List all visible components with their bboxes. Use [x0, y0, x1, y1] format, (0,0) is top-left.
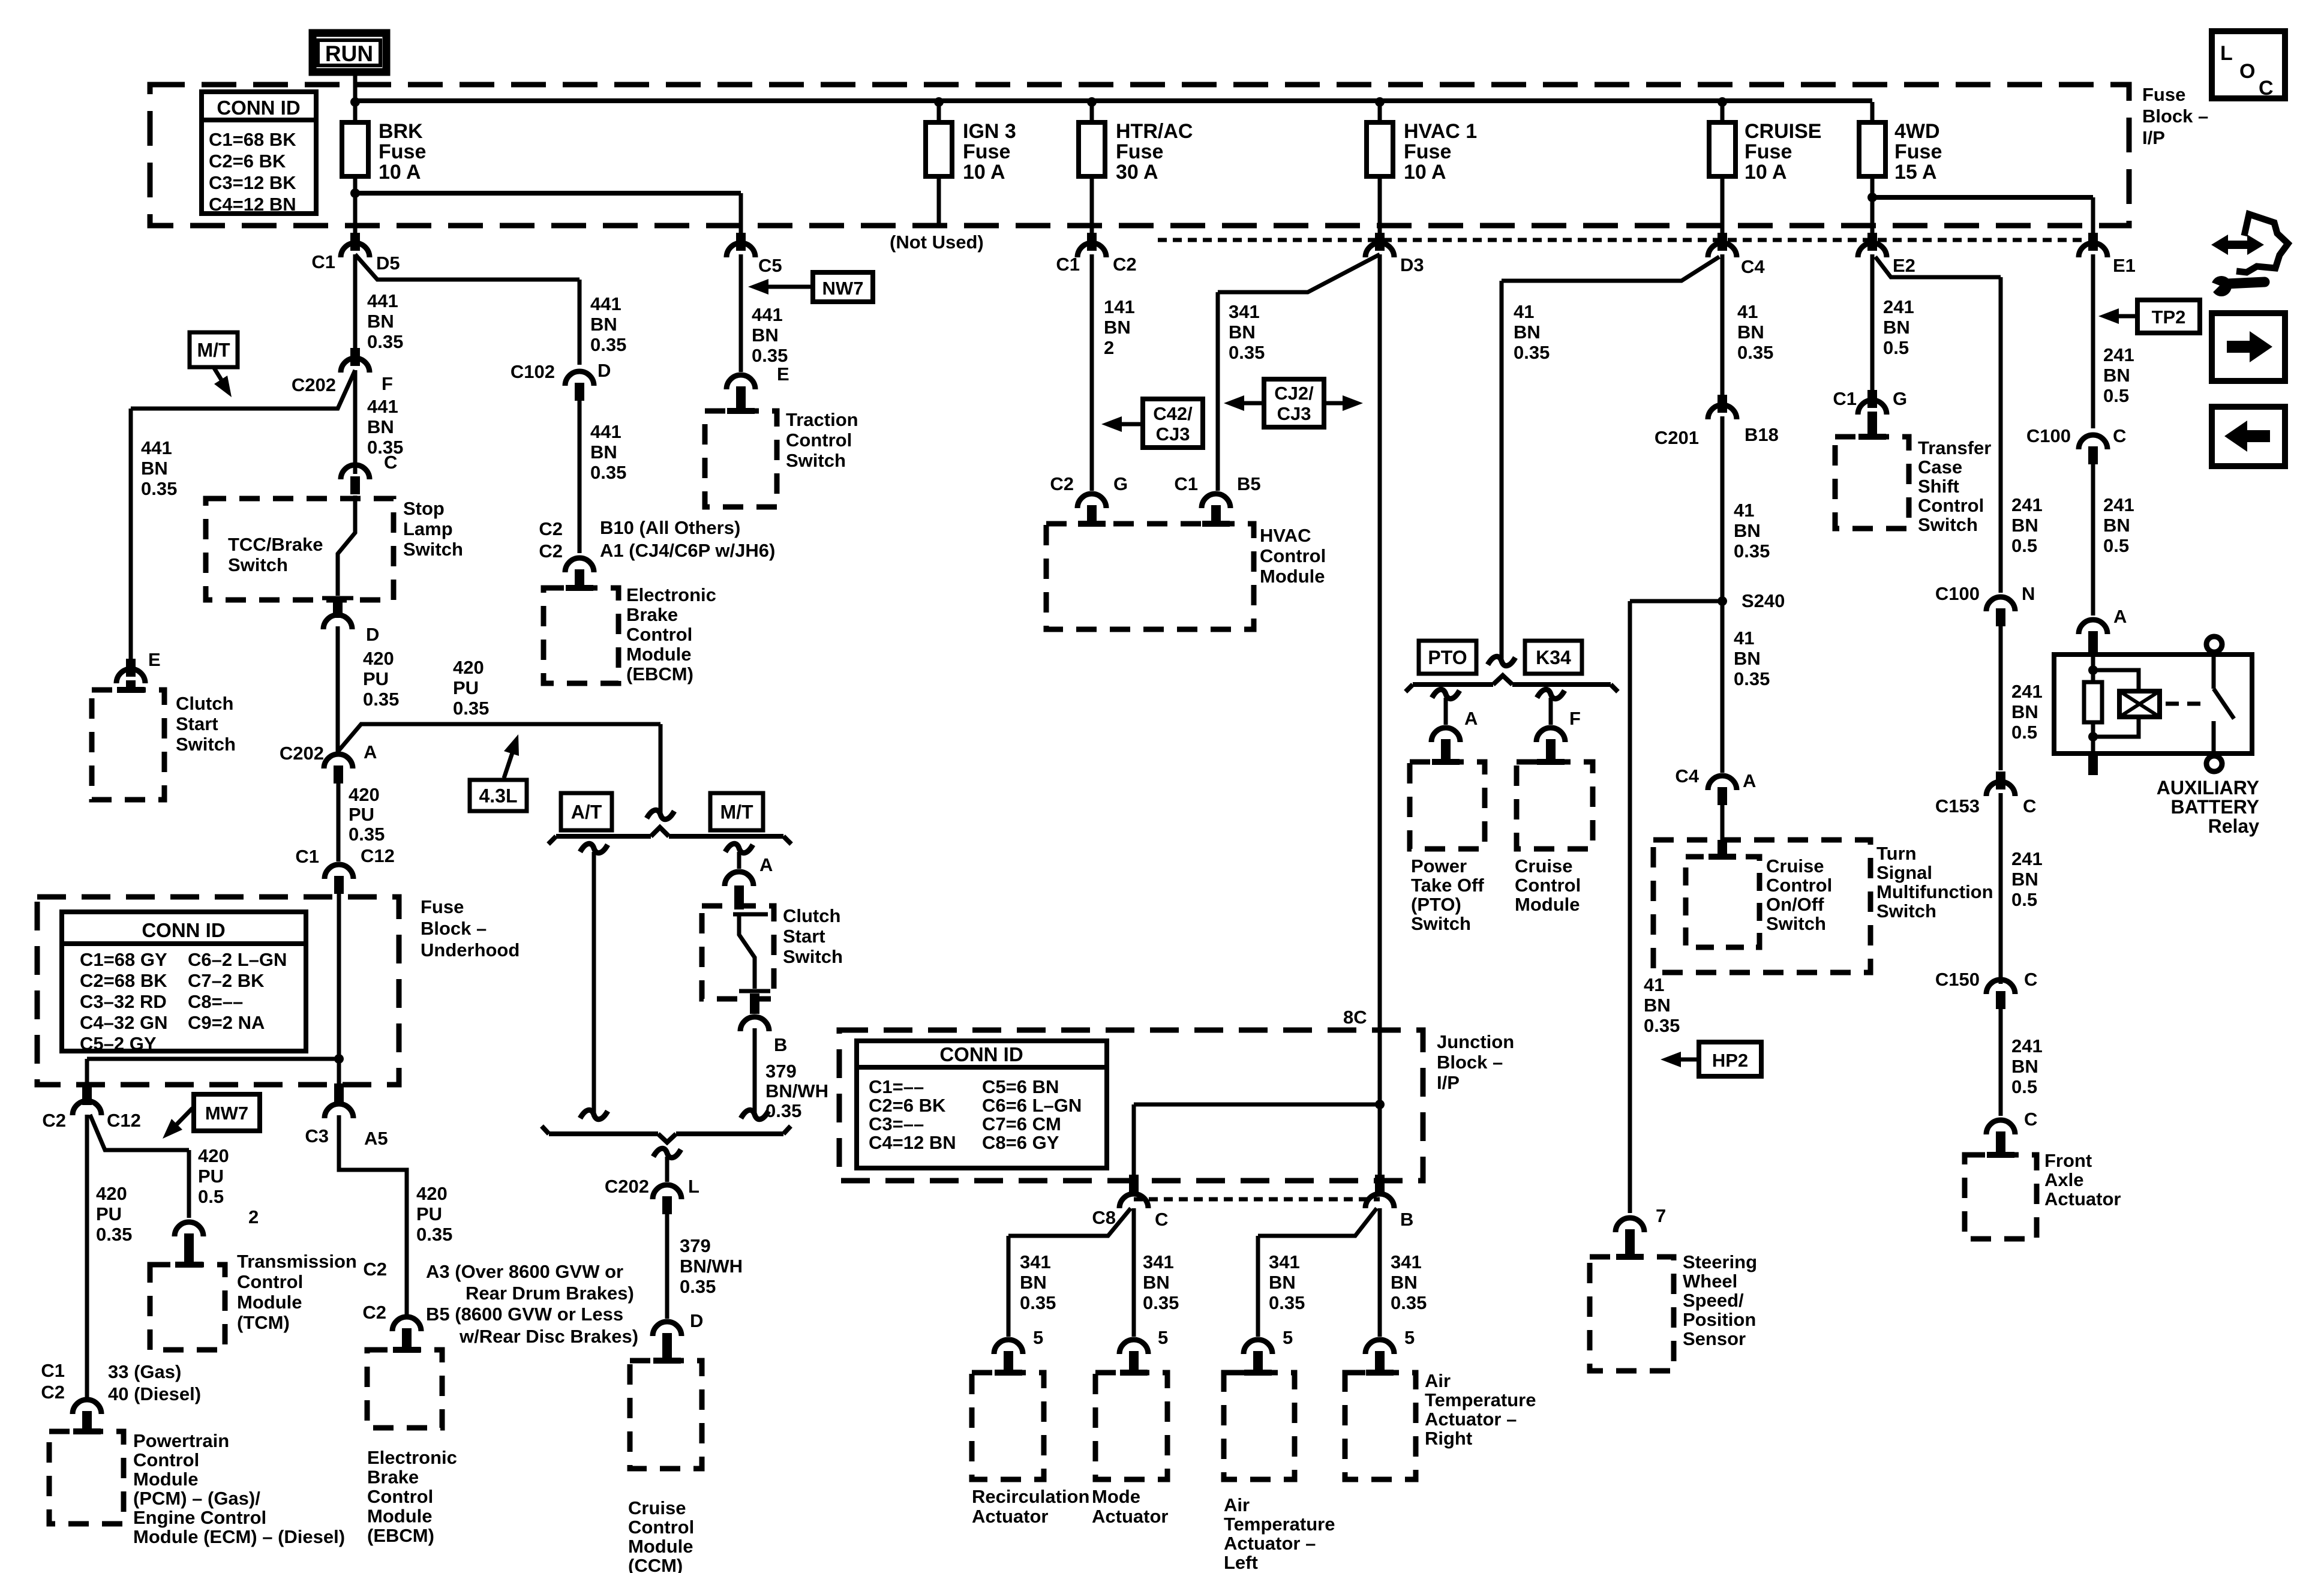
svg-text:441: 441	[590, 421, 621, 442]
traction control switch dashed box	[705, 411, 777, 507]
svg-text:Control: Control	[1766, 875, 1832, 896]
svg-text:D: D	[690, 1310, 703, 1331]
svg-text:Actuator –: Actuator –	[1425, 1409, 1517, 1430]
M/T option box	[710, 793, 763, 830]
CONN ID table (underhood)	[62, 912, 306, 1051]
svg-text:C5: C5	[758, 255, 782, 276]
svg-text:C2: C2	[362, 1302, 386, 1323]
svg-text:BN: BN	[1143, 1272, 1170, 1293]
svg-text:C3–32 RD: C3–32 RD	[80, 991, 167, 1012]
junction dot in underhood fuse block	[334, 1054, 344, 1064]
svg-text:0.35: 0.35	[1644, 1015, 1680, 1036]
svg-text:On/Off: On/Off	[1766, 894, 1824, 915]
junction dot HVAC1 tap	[1375, 97, 1385, 107]
svg-text:C153: C153	[1935, 795, 1980, 816]
wire C153 to C150	[1999, 793, 2003, 984]
svg-text:Front: Front	[2044, 1150, 2092, 1171]
svg-text:BRK: BRK	[379, 120, 423, 143]
wire D5 branch to C102	[355, 254, 580, 280]
svg-text:Control: Control	[237, 1271, 303, 1292]
svg-text:BN: BN	[752, 325, 779, 346]
svg-text:0.35: 0.35	[1269, 1292, 1305, 1313]
svg-text:Switch: Switch	[786, 450, 846, 471]
wire 41 BN branch to PTO/K34	[1502, 257, 1719, 281]
svg-text:Cruise: Cruise	[628, 1497, 686, 1518]
svg-text:TP2: TP2	[2152, 307, 2186, 328]
wire through CRUISE fuse	[1721, 102, 1725, 235]
svg-text:Mode: Mode	[1092, 1486, 1140, 1507]
option brace (top)	[556, 834, 651, 839]
svg-text:341: 341	[1391, 1251, 1422, 1272]
svg-text:L: L	[688, 1176, 699, 1197]
svg-text:M/T: M/T	[197, 340, 230, 361]
svg-text:C1: C1	[1833, 388, 1857, 409]
svg-text:C2: C2	[1050, 473, 1074, 494]
svg-text:BN: BN	[2011, 701, 2038, 722]
wire C3/A5 out of underhood fuse block	[337, 1059, 341, 1085]
svg-text:Wheel: Wheel	[1683, 1271, 1737, 1292]
svg-text:Switch: Switch	[783, 946, 843, 967]
svg-text:C: C	[2024, 969, 2037, 990]
junction dot HTR/AC tap	[1087, 97, 1097, 107]
clutch start switch (lower) dashed box	[702, 906, 774, 999]
svg-text:41: 41	[1734, 628, 1754, 649]
svg-text:241: 241	[2011, 494, 2043, 515]
svg-text:Recirculation: Recirculation	[972, 1486, 1089, 1507]
svg-text:241: 241	[2011, 848, 2043, 869]
svg-text:0.5: 0.5	[2011, 1076, 2037, 1097]
svg-text:0.5: 0.5	[1883, 337, 1909, 358]
svg-text:C3=12 BK: C3=12 BK	[209, 172, 296, 193]
wire L from brace	[653, 1148, 681, 1157]
svg-text:441: 441	[590, 293, 621, 314]
svg-text:D3: D3	[1400, 254, 1424, 275]
svg-text:RUN: RUN	[325, 41, 373, 66]
svg-text:Module: Module	[237, 1292, 302, 1313]
svg-text:E: E	[148, 649, 161, 670]
svg-text:0.5: 0.5	[198, 1186, 224, 1207]
junction dot below BRK fuse	[350, 188, 360, 198]
svg-text:w/Rear Disc Brakes): w/Rear Disc Brakes)	[459, 1326, 638, 1347]
svg-text:CJ3: CJ3	[1156, 424, 1190, 445]
connector C5 (traction branch)	[726, 243, 755, 257]
svg-text:A5: A5	[364, 1128, 388, 1149]
wire B down	[753, 1028, 757, 1113]
svg-text:Block –: Block –	[1437, 1052, 1503, 1073]
relay switch	[2212, 655, 2216, 689]
svg-text:41: 41	[1737, 301, 1758, 322]
svg-text:Switch: Switch	[403, 539, 463, 560]
connector C1/D5	[341, 243, 370, 257]
relay coil feed stub	[2088, 631, 2098, 656]
svg-text:0.35: 0.35	[363, 689, 399, 710]
svg-text:0.35: 0.35	[453, 698, 489, 719]
wire through 4WD fuse	[1870, 102, 1875, 235]
svg-text:Control: Control	[1515, 875, 1581, 896]
svg-text:40 (Diesel): 40 (Diesel)	[108, 1383, 201, 1404]
svg-text:C: C	[1155, 1209, 1168, 1230]
HVAC control module dashed box	[1046, 524, 1254, 629]
svg-text:A: A	[1743, 770, 1756, 791]
svg-text:BN: BN	[1514, 322, 1541, 343]
wire B18 to cruise on/off switch	[1721, 416, 1725, 773]
svg-text:A: A	[2113, 606, 2127, 627]
svg-text:PU: PU	[416, 1203, 442, 1224]
svg-text:10 A: 10 A	[1404, 161, 1446, 184]
svg-text:BN: BN	[1734, 648, 1761, 669]
svg-text:CJ2/: CJ2/	[1274, 383, 1314, 404]
svg-text:0.35: 0.35	[1737, 342, 1773, 363]
svg-text:BN: BN	[1737, 322, 1764, 343]
svg-text:Fuse: Fuse	[421, 896, 464, 917]
fuse IGN3 10A	[926, 122, 952, 176]
svg-text:Control: Control	[628, 1517, 694, 1538]
svg-text:Start: Start	[783, 926, 825, 947]
svg-text:Clutch: Clutch	[783, 905, 840, 926]
wire D to C202/A	[336, 626, 340, 752]
mode actuator dashed box	[1095, 1373, 1167, 1479]
I/P harness dotted line	[1158, 238, 2082, 242]
svg-text:BN: BN	[1644, 995, 1671, 1016]
svg-text:241: 241	[2103, 344, 2134, 365]
svg-text:S240: S240	[1742, 590, 1785, 611]
svg-text:Fuse: Fuse	[379, 140, 426, 163]
svg-text:Brake: Brake	[626, 604, 678, 625]
svg-text:C4: C4	[1741, 256, 1765, 277]
svg-text:PU: PU	[363, 668, 389, 689]
svg-text:0.35: 0.35	[590, 334, 626, 355]
connector D3 (HVAC1 fuse)	[1365, 243, 1394, 257]
stop lamp switch dashed box	[206, 499, 394, 600]
wire C5 to traction control switch	[739, 254, 743, 372]
CONN ID table (fuse block I/P)	[202, 92, 316, 214]
svg-text:Steering: Steering	[1683, 1251, 1757, 1272]
svg-text:Turn: Turn	[1876, 843, 1917, 864]
svg-text:0.35: 0.35	[349, 824, 385, 845]
svg-text:C6–2 L–GN: C6–2 L–GN	[188, 949, 287, 970]
svg-text:C1=68 GY: C1=68 GY	[80, 949, 167, 970]
svg-text:BN: BN	[141, 458, 168, 479]
svg-text:B5: B5	[1237, 473, 1261, 494]
air temperature actuator left dashed box	[1224, 1373, 1295, 1479]
svg-text:41: 41	[1514, 301, 1534, 322]
svg-text:CONN ID: CONN ID	[142, 919, 225, 941]
svg-text:C6=6 L–GN: C6=6 L–GN	[982, 1095, 1082, 1116]
svg-text:HP2: HP2	[1712, 1050, 1748, 1071]
svg-text:A: A	[759, 854, 773, 875]
junction block I/P dashed box	[839, 1030, 1423, 1181]
svg-text:Module (ECM) – (Diesel): Module (ECM) – (Diesel)	[133, 1526, 345, 1547]
wire M/T branch to clutch start switch	[131, 370, 355, 409]
connector A (aux battery relay)	[2079, 620, 2107, 634]
transmission control module dashed box	[150, 1265, 225, 1350]
svg-text:A: A	[1464, 708, 1478, 729]
svg-text:(PTO): (PTO)	[1411, 894, 1461, 915]
svg-text:C3=––: C3=––	[869, 1113, 924, 1134]
fuse 4WD 15A	[1859, 122, 1885, 176]
svg-text:Axle: Axle	[2044, 1169, 2083, 1190]
top bus wire	[355, 98, 1872, 103]
wire to C2/C12 branch	[87, 1057, 339, 1061]
svg-text:2: 2	[248, 1206, 259, 1227]
svg-text:Transmission: Transmission	[237, 1251, 357, 1272]
wire E2 branch to C100/N	[1875, 257, 2001, 277]
svg-text:0.5: 0.5	[2103, 535, 2129, 556]
svg-text:BN: BN	[2011, 1056, 2038, 1077]
wire C100/C to relay	[2091, 464, 2095, 616]
svg-text:C4=12 BN: C4=12 BN	[869, 1132, 956, 1153]
svg-text:BATTERY: BATTERY	[2170, 796, 2259, 818]
svg-text:Cruise: Cruise	[1515, 855, 1572, 876]
svg-text:B: B	[774, 1034, 787, 1055]
svg-text:Block –: Block –	[2142, 106, 2208, 127]
svg-text:BN: BN	[590, 314, 617, 335]
wire E1 to C100/C	[2091, 254, 2095, 428]
svg-text:4WD: 4WD	[1894, 120, 1940, 143]
svg-text:CJ3: CJ3	[1277, 403, 1311, 424]
electronic brake control module dashed box (lower)	[367, 1350, 442, 1428]
svg-text:HTR/AC: HTR/AC	[1116, 120, 1193, 143]
K34 option box	[1525, 641, 1582, 674]
wire C2 down to PCM	[85, 1115, 89, 1398]
svg-text:441: 441	[141, 437, 172, 458]
connector C2/G (HVAC)	[1077, 494, 1106, 508]
svg-text:41: 41	[1644, 974, 1664, 995]
junction dot below 4WD fuse	[1867, 193, 1877, 202]
svg-text:TCC/Brake: TCC/Brake	[228, 534, 323, 555]
junction dot CRUISE tap	[1718, 97, 1727, 107]
wire C102 to EBCM	[578, 401, 582, 553]
svg-text:BN: BN	[2103, 365, 2130, 386]
connector D (CCM)	[653, 1322, 681, 1336]
fuse HVAC1 10A	[1367, 122, 1393, 176]
svg-text:0.35: 0.35	[1143, 1292, 1179, 1313]
svg-text:420: 420	[198, 1145, 229, 1166]
svg-text:B10 (All Others): B10 (All Others)	[600, 517, 740, 538]
transfer case shift control switch dashed box	[1835, 437, 1909, 529]
svg-text:Fuse: Fuse	[1894, 140, 1942, 163]
svg-text:0.35: 0.35	[141, 478, 177, 499]
clutch start switch blade (lower)	[733, 912, 768, 917]
wire 420 PU branch to A/T-M/T	[338, 724, 660, 752]
svg-text:Multifunction: Multifunction	[1876, 881, 1993, 902]
wire C12 branch to TCM	[90, 1115, 189, 1150]
svg-text:PTO: PTO	[1428, 647, 1467, 668]
svg-text:Fuse: Fuse	[1116, 140, 1163, 163]
svg-text:Module: Module	[133, 1469, 199, 1490]
svg-text:C3: C3	[305, 1125, 329, 1146]
svg-text:(CCM): (CCM)	[628, 1555, 683, 1573]
fuse BRK 10A	[342, 122, 368, 176]
svg-text:CONN ID: CONN ID	[217, 97, 300, 119]
connector C150/C	[1986, 980, 2015, 994]
svg-text:D5: D5	[376, 253, 400, 274]
connector C102/D	[565, 371, 594, 386]
svg-text:341: 341	[1269, 1251, 1300, 1272]
svg-text:7: 7	[1656, 1205, 1666, 1226]
A/T span wire	[580, 843, 608, 852]
svg-text:0.35: 0.35	[590, 462, 626, 483]
connector 7 (steering wheel sensor)	[1616, 1218, 1644, 1232]
svg-text:Control: Control	[786, 430, 852, 451]
clutch start switch output stub	[750, 993, 759, 1014]
bottom bus wire from BRK fuse	[355, 191, 741, 196]
svg-text:Control: Control	[367, 1486, 433, 1507]
wire to air temperature actuator right	[1378, 1208, 1382, 1337]
svg-text:Switch: Switch	[1876, 900, 1936, 921]
svg-text:Speed/: Speed/	[1683, 1290, 1744, 1311]
svg-text:0.35: 0.35	[1391, 1292, 1427, 1313]
PTO option box	[1419, 641, 1476, 674]
svg-text:G: G	[1113, 473, 1128, 494]
wire through BRK fuse	[353, 102, 358, 235]
connector E	[116, 669, 145, 683]
svg-text:0.35: 0.35	[765, 1100, 801, 1121]
cruise control on/off switch inner dashed box	[1686, 857, 1759, 947]
svg-text:D: D	[597, 360, 611, 381]
svg-text:BN: BN	[2011, 515, 2038, 536]
svg-text:C1=––: C1=––	[869, 1076, 924, 1097]
svg-text:Module: Module	[1260, 566, 1325, 587]
svg-text:C1=68 BK: C1=68 BK	[209, 129, 296, 150]
cruise control module dashed box (K34)	[1517, 762, 1593, 849]
wire RUN to bus	[353, 72, 358, 103]
svg-text:C8=––: C8=––	[188, 991, 243, 1012]
svg-text:341: 341	[1020, 1251, 1051, 1272]
hook end (PTO/K34 feed)	[1488, 656, 1515, 665]
svg-text:MW7: MW7	[205, 1103, 248, 1124]
wire L to CCM	[665, 1214, 669, 1319]
connector C4/A (cruise on/off switch)	[1708, 776, 1737, 790]
svg-text:10 A: 10 A	[379, 161, 421, 184]
svg-text:PU: PU	[453, 677, 479, 698]
wire junction block to C8	[1134, 1103, 1380, 1107]
wire F (cruise control module)	[1537, 689, 1565, 698]
connector E1 (4WD fuse)	[2079, 243, 2107, 257]
diagnostic tool icon	[2236, 214, 2288, 272]
recirculation actuator dashed box	[972, 1373, 1044, 1479]
relay resistor	[2091, 655, 2095, 684]
svg-text:A1 (CJ4/C6P w/JH6): A1 (CJ4/C6P w/JH6)	[600, 540, 775, 561]
svg-text:C12: C12	[361, 845, 395, 866]
wire HVAC1 to junction block (8C)	[1378, 254, 1382, 1176]
cruise control on/off switch outer dashed box	[1653, 840, 1870, 972]
TP2 reference box	[2137, 300, 2200, 333]
svg-text:0.35: 0.35	[367, 331, 403, 352]
connector C1/B5 (HVAC)	[1202, 494, 1230, 508]
svg-text:BN/WH: BN/WH	[765, 1080, 828, 1101]
svg-text:Actuator: Actuator	[2044, 1188, 2121, 1209]
svg-text:0.35: 0.35	[416, 1224, 452, 1245]
connector C100/C	[2079, 435, 2107, 449]
svg-text:Start: Start	[176, 713, 218, 734]
svg-text:5: 5	[1158, 1327, 1168, 1348]
svg-text:0.5: 0.5	[2011, 889, 2037, 910]
svg-text:C201: C201	[1655, 427, 1699, 448]
svg-text:O: O	[2239, 60, 2255, 83]
svg-text:0.35: 0.35	[1020, 1292, 1056, 1313]
relay ground stub	[2088, 754, 2098, 775]
svg-text:0.5: 0.5	[2011, 722, 2037, 743]
connector C (stop lamp switch)	[341, 465, 370, 479]
svg-text:0.35: 0.35	[96, 1224, 132, 1245]
svg-text:Actuator –: Actuator –	[1224, 1533, 1316, 1554]
TP2 arrow	[2112, 314, 2137, 319]
svg-text:C4–32 GN: C4–32 GN	[80, 1012, 167, 1033]
connector A (clutch start switch)	[725, 872, 753, 886]
svg-text:BN: BN	[2103, 515, 2130, 536]
svg-text:Control: Control	[133, 1449, 199, 1470]
connector C100/N	[1986, 597, 2015, 611]
svg-text:AUXILIARY: AUXILIARY	[2157, 777, 2259, 798]
svg-text:C5=6 BN: C5=6 BN	[982, 1076, 1059, 1097]
svg-text:C: C	[2259, 77, 2274, 100]
svg-text:0.35: 0.35	[752, 345, 788, 366]
svg-text:F: F	[1569, 708, 1581, 729]
svg-text:C202: C202	[292, 374, 336, 395]
connector B (junction block)	[1375, 1175, 1385, 1195]
svg-text:C: C	[2023, 795, 2036, 816]
svg-text:Temperature: Temperature	[1224, 1514, 1335, 1535]
svg-text:Brake: Brake	[367, 1467, 419, 1488]
svg-text:5: 5	[1033, 1327, 1043, 1348]
svg-text:420: 420	[96, 1183, 127, 1204]
connector E (traction)	[726, 375, 755, 389]
CONN ID table (junction block)	[857, 1041, 1107, 1168]
CJ2/CJ3 arrows	[1237, 401, 1264, 406]
svg-text:0.35: 0.35	[1514, 342, 1550, 363]
CJ2/CJ3 reference box	[1264, 379, 1324, 427]
svg-text:Junction: Junction	[1437, 1031, 1514, 1052]
clutch start switch (M/T) dashed box	[92, 690, 164, 800]
svg-text:Electronic: Electronic	[626, 584, 716, 605]
svg-text:BN: BN	[367, 311, 394, 332]
svg-text:CRUISE: CRUISE	[1744, 120, 1821, 143]
svg-text:E2: E2	[1893, 255, 1915, 276]
fuse HTR/AC 30A	[1079, 122, 1105, 176]
relay coil (solenoid) branch	[2093, 670, 2139, 691]
svg-text:C202: C202	[280, 743, 324, 764]
svg-text:BN: BN	[1269, 1272, 1296, 1293]
wire A (PTO switch)	[1432, 689, 1460, 698]
option brace (PTO/K34)	[1413, 682, 1493, 687]
svg-text:C4=12 BN: C4=12 BN	[209, 194, 296, 215]
connector B18 (C201)	[1708, 405, 1737, 419]
svg-text:0.35: 0.35	[1734, 668, 1770, 689]
svg-text:A: A	[364, 742, 377, 763]
svg-text:C: C	[384, 452, 397, 473]
wire C150 to front axle actuator	[1999, 1009, 2003, 1116]
cruise control module (CCM) dashed box	[630, 1361, 702, 1469]
junction block dotted line	[1134, 1197, 1380, 1202]
connector C (front axle actuator)	[1986, 1120, 2015, 1134]
svg-text:30 A: 30 A	[1116, 161, 1158, 184]
svg-text:C2: C2	[41, 1382, 65, 1403]
svg-text:Switch: Switch	[1918, 514, 1978, 535]
svg-text:141: 141	[1104, 296, 1135, 317]
svg-text:Actuator: Actuator	[1092, 1506, 1168, 1527]
connector 5 (air temp actuator left)	[1244, 1340, 1272, 1354]
front axle actuator dashed box	[1965, 1155, 2037, 1239]
svg-text:C1: C1	[1174, 473, 1198, 494]
svg-text:C8=6 GY: C8=6 GY	[982, 1132, 1059, 1153]
svg-text:C150: C150	[1935, 969, 1980, 990]
wire bottom bus to C5	[739, 193, 743, 239]
svg-text:(TCM): (TCM)	[237, 1312, 290, 1333]
wire 141 BN to HVAC control module	[1090, 254, 1094, 491]
connector C153/C	[1986, 782, 2015, 796]
svg-text:420: 420	[416, 1183, 448, 1204]
